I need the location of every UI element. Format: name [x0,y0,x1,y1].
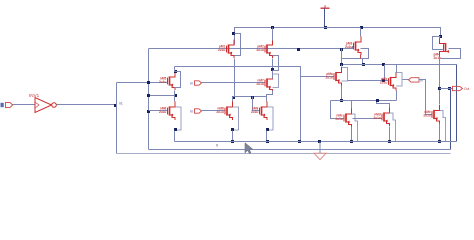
wire M5 drain up [351,101,353,109]
pin In2 [195,109,202,113]
pin In1 [195,81,202,85]
wire B source to rail [232,131,234,142]
wire M3 source to rail [174,131,176,142]
wire P5 source down [396,91,398,101]
wire M4 gate feed [301,76,335,78]
node tap M2 gate [147,81,150,84]
wire P4 gate tie [433,37,444,50]
wire P3 bulk loop [342,49,369,59]
svg-text:2u1u: 2u1u [325,76,332,80]
node out right [448,87,451,90]
node P1 drain [232,32,235,35]
power vdd symbol [321,5,330,8]
wire bus right leg x=457 [456,65,458,142]
node gnd stem [318,140,321,143]
wire P1 bulk loop [235,34,241,56]
wire vertical clock net x=148.5 [148,49,150,150]
svg-text:Out: Out [464,87,469,91]
wire P5 drain up [396,65,398,73]
wire M4 drain up [341,65,343,67]
node bus jog [382,63,385,66]
wire gnd rail y=141.5 [175,141,457,143]
wire P1 drain chain x=234 [234,59,236,97]
wire M7 drain up [439,89,441,105]
node M4 source [340,99,343,102]
wire inverter output [57,104,117,106]
node M5 source rail [350,140,353,143]
wire A drain to P2 [272,74,274,79]
wire P3 loop to bus [341,59,343,65]
pin mid-right [409,78,420,82]
node bus P3 tap [362,63,365,66]
node P4 drain junction [439,35,442,38]
svg-text:In: In [190,110,193,114]
node bus-rail join [298,140,301,143]
wire outer border y=153.3 [117,153,451,155]
node tap M3 gate [147,110,150,113]
transistor B [216,102,238,132]
wire M3 gate stub [149,110,168,112]
svg-text:2u1u: 2u1u [256,82,263,86]
node mid-tie left [147,94,150,97]
svg-text:2u1u: 2u1u [423,114,430,118]
transistor C [251,102,273,132]
wire mid-tie stub y=95.5 [149,95,175,97]
inverter INV1 [35,98,56,113]
wire M6 source to rail [389,127,391,142]
node C source rail [266,140,269,143]
node M6 drain [376,99,379,102]
wire bus y=64.5 [342,64,457,66]
wire M6 drain up [377,101,390,108]
svg-text:INV1: INV1 [29,93,40,98]
transistor P3 [345,37,361,56]
node tie x=384 [382,79,385,82]
wire A source to C drain [267,91,273,102]
svg-text:2u1u: 2u1u [345,45,352,49]
wire P4 drain stub [439,37,441,39]
wire P4 bulk loop [441,49,461,59]
wire vdd stem [324,9,326,28]
input pin A (left edge) [1,102,13,107]
node gate rail x=341.7 [340,48,343,51]
transistor M5 [335,109,357,142]
node gate rail x=298.5 [297,48,300,51]
wire C drain up [266,97,268,102]
transistor M4 [325,67,347,86]
svg-text:2u1u: 2u1u [159,110,166,114]
svg-text:2u1u: 2u1u [251,110,258,114]
svg-text:n1: n1 [119,101,123,105]
wire M2-M3 stack [174,91,176,102]
wire bus drop x=384 [384,65,386,81]
wire P2 bulk loop [273,56,279,71]
wire return y=149.5 [149,149,451,151]
wire pin net down x=425.5 [419,80,433,115]
node P2 loop junction [271,68,274,71]
svg-text:2u1u: 2u1u [380,81,387,85]
node M2 drain top [174,70,177,73]
wire M4 source down [341,86,343,101]
wire P2 source down [272,59,274,79]
svg-text:2u1u: 2u1u [216,110,223,114]
node inverter-out junction [114,104,117,107]
transistor P4 [434,38,450,60]
node rail P2 [271,26,274,29]
wire In1 to A gate [202,82,265,84]
transistor M7 [423,105,445,142]
transistor P2 [256,40,272,59]
node M6 source rail [388,140,391,143]
transistor A [256,74,278,93]
wire horizontal to M2 gate y=82.6 [117,82,168,84]
wire M7 source to rail [439,124,441,142]
svg-text:2u1u: 2u1u [373,116,380,120]
pin mid-right wire [403,79,409,81]
svg-text:2u1u: 2u1u [335,117,342,121]
node mid-tie right [174,94,177,97]
wire M2 bulk loop [175,72,181,88]
wire In2 to B gate [202,110,225,112]
svg-text:In: In [190,82,193,86]
wire vdd rail y=27.5 [235,28,441,45]
wire B top bus y=97 [233,96,267,98]
node M7 source rail [438,140,441,143]
node vdd rail junction [324,26,327,29]
node rail P3 [360,26,363,29]
wire P3 source stub [360,55,362,59]
wire M5 gate drop [331,101,345,119]
wire M5 gate rail [353,118,383,120]
transistor M2 [159,72,175,91]
wire M2 drain up [174,67,176,72]
wire input to inverter [13,104,35,106]
wire M4-P5 tie y=80.5 [348,80,389,82]
wire P3 source tap [362,59,364,65]
node out left [438,87,441,90]
svg-text:2u1u: 2u1u [218,48,225,52]
wire P3 drain to rail [360,28,362,37]
transistor M6 [373,108,395,142]
wire out drop x=450 [450,89,452,150]
pin Out [453,86,463,90]
wire M5 source to rail [351,127,353,142]
wire out [440,88,453,90]
mouse cursor [245,143,253,154]
transistor M3 [159,102,181,132]
svg-text:2u1u: 2u1u [256,48,263,52]
wire B drain up [232,97,234,102]
wire vertical inverted-input net x=116 [116,83,118,154]
wire C source to rail [266,131,268,142]
transistor P1 [218,40,234,59]
wire P2 drain to rail [272,28,274,41]
wire pmos gate rail y=49 [149,47,354,49]
node C gate tap [251,96,254,99]
ground [314,142,326,160]
node B source rail [231,140,234,143]
transistor P5 [380,72,402,91]
wire bus y=66 [175,67,301,142]
wire mid bus y=100.5 [331,100,397,102]
node bus M4 [340,63,343,66]
node P1 chain bottom [232,96,235,99]
wire P4 source to out [439,57,441,89]
wire C gate feed [253,97,260,111]
svg-text:2u1u: 2u1u [159,80,166,84]
